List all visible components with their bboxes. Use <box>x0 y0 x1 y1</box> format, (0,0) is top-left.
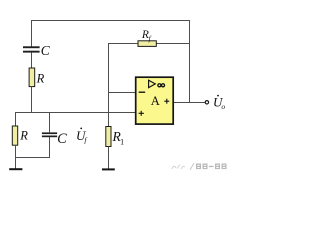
wire parallel R bottom to ground <box>15 145 17 169</box>
wire R1 bottom to ground <box>108 147 110 169</box>
wire feedback horizontal (Rf net) <box>108 43 190 45</box>
wire parallel C branch bottom <box>49 137 51 158</box>
wire between C and R <box>31 53 33 69</box>
svg-text:C: C <box>57 131 67 147</box>
op-amp minus input sign <box>139 91 146 93</box>
label R1 <box>112 129 125 146</box>
svg-text:R: R <box>36 72 45 86</box>
label Rf <box>141 29 152 43</box>
capacitor C (series, top-left) <box>23 46 40 52</box>
op-amp ideal symbol triangle <box>149 80 156 87</box>
resistor Rf <box>138 41 156 47</box>
op-amp plus input sign <box>139 111 144 116</box>
wire wien node horizontal to op-amp + input <box>15 112 136 114</box>
op-amp infinity symbol <box>158 84 165 87</box>
capacitor C (parallel) <box>42 132 57 137</box>
wire parallel R branch top <box>15 112 17 126</box>
ground (left) <box>9 168 22 170</box>
wire minus input horizontal <box>108 92 136 94</box>
label Uf (feedback voltage) <box>76 127 87 144</box>
ground (right, under R1) <box>102 168 115 170</box>
op-amp output plus sign <box>164 99 169 104</box>
wire below series R to node <box>31 87 33 113</box>
svg-text:1: 1 <box>120 137 124 146</box>
wire right vertical (top wire down to output) <box>189 20 191 103</box>
wire inverting node vertical (Rf left to R1 top) <box>108 43 110 127</box>
wire bottom link (R to C bottoms) <box>15 157 50 159</box>
output terminal circle <box>205 101 208 104</box>
resistor R1 <box>106 127 111 147</box>
wire top horizontal (output to series RC) <box>31 20 190 22</box>
svg-text:A: A <box>151 94 160 108</box>
resistor R (parallel) <box>12 126 17 145</box>
wire left vertical upper <box>31 20 33 47</box>
svg-text:R: R <box>19 128 28 142</box>
wire parallel C branch top <box>49 112 51 133</box>
resistor R (series) <box>29 68 35 87</box>
label Uo (output voltage) <box>213 95 225 111</box>
watermark bottom right <box>172 163 227 170</box>
op-amp U1 (amplifier A) <box>136 77 174 124</box>
svg-text:C: C <box>41 43 51 58</box>
svg-text:o: o <box>221 102 225 111</box>
wire output horizontal <box>174 102 205 104</box>
